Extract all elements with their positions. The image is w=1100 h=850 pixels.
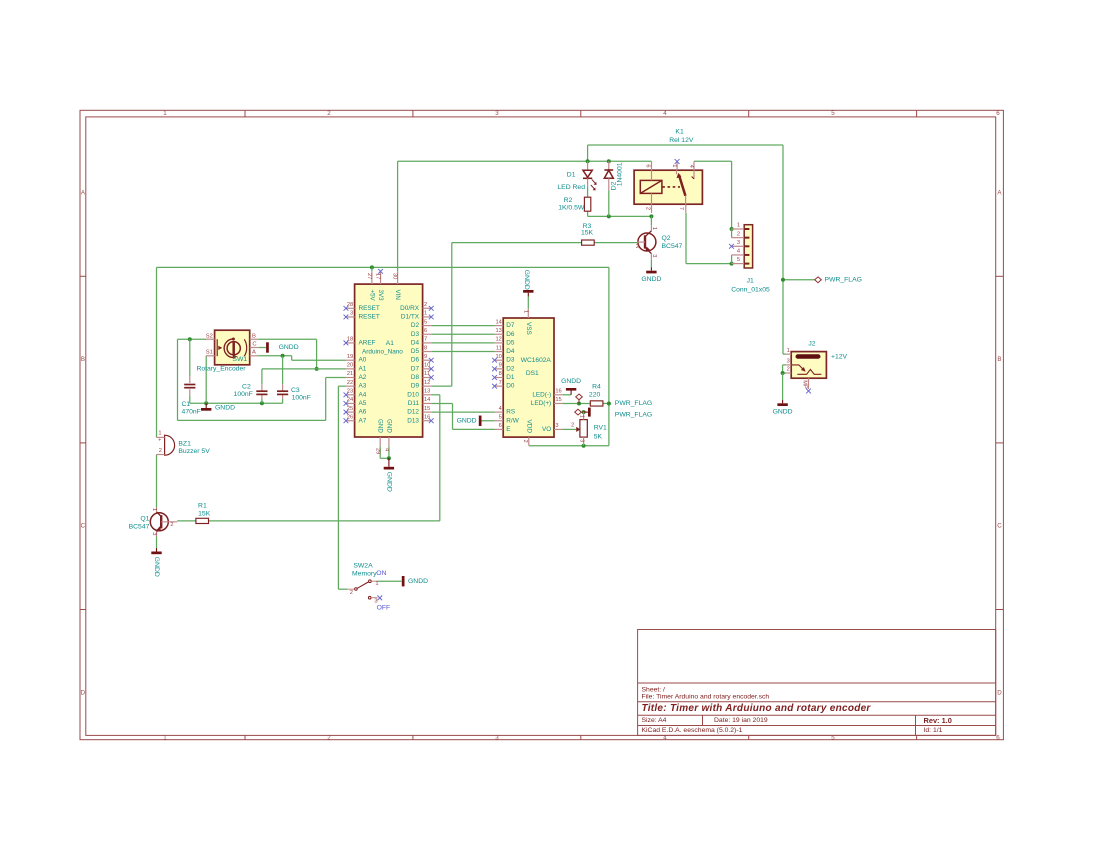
svg-text:RV1: RV1 [594, 425, 607, 432]
pin 16 D13 [407, 414, 433, 424]
connector J1 Conn_01x05 [731, 225, 770, 294]
wire VIN vertical [397, 161, 399, 271]
pin 1 J1 [732, 223, 750, 229]
svg-text:1: 1 [671, 164, 677, 167]
pin 9 D2 [492, 363, 515, 373]
node PWR_FLAG LED junction [577, 401, 581, 405]
svg-text:Buzzer 5V: Buzzer 5V [178, 448, 210, 455]
svg-text:6: 6 [424, 328, 427, 334]
power flag PWR_FLAG right [815, 276, 862, 283]
pin 8 D1 [492, 371, 515, 381]
svg-text:D3: D3 [411, 331, 420, 338]
wire C3 top [282, 356, 284, 391]
svg-text:C3: C3 [291, 387, 300, 394]
svg-text:30: 30 [391, 273, 397, 279]
wire ground rail under caps [190, 402, 283, 404]
svg-text:470nF: 470nF [182, 409, 201, 416]
svg-text:D1: D1 [567, 172, 576, 179]
svg-text:D11: D11 [408, 400, 420, 407]
svg-text:Q1: Q1 [140, 516, 149, 523]
svg-text:D6: D6 [411, 357, 420, 364]
svg-text:D7: D7 [506, 322, 515, 329]
wire +5V to buzzer [156, 267, 158, 437]
svg-text:100nF: 100nF [234, 391, 253, 398]
svg-text:5: 5 [737, 257, 740, 263]
svg-text:6: 6 [996, 734, 1000, 741]
node RV1 bottom junction [582, 444, 586, 448]
svg-text:ON: ON [376, 570, 386, 577]
pin 18 AREF [344, 337, 376, 347]
svg-text:Q2: Q2 [662, 235, 671, 242]
svg-text:GNDD: GNDD [408, 578, 428, 585]
node D1 junction [586, 159, 590, 163]
svg-text:D1: D1 [506, 374, 515, 381]
svg-text:7: 7 [499, 380, 502, 386]
svg-text:VSS: VSS [525, 322, 532, 335]
wire A3 to SW2A [338, 386, 347, 589]
pin 27 +5V [366, 271, 376, 301]
wire C2 bottom stub [261, 395, 263, 404]
svg-text:Date: 19 ian 2019: Date: 19 ian 2019 [714, 717, 768, 724]
svg-text:Id: 1/1: Id: 1/1 [924, 727, 943, 734]
node D2 junction [607, 159, 611, 163]
svg-text:6: 6 [645, 164, 651, 167]
pin 10 D3 [492, 354, 515, 364]
capacitor C1 470nF [181, 385, 200, 416]
svg-text:15K: 15K [198, 511, 211, 518]
svg-text:J1: J1 [747, 278, 754, 285]
pin 23 A4 [344, 389, 367, 399]
svg-text:C: C [997, 523, 1002, 530]
pin 5 J1 [732, 257, 750, 263]
svg-text:3: 3 [495, 110, 499, 117]
svg-text:11: 11 [496, 345, 502, 351]
svg-text:DS1: DS1 [526, 370, 539, 377]
svg-text:D13: D13 [407, 417, 419, 424]
pin 2 relay coil- [645, 204, 652, 213]
svg-text:9: 9 [499, 363, 502, 369]
wire Q2 emitter to ground [650, 260, 652, 267]
pin 19 A0 [346, 354, 367, 364]
wire D11 to E [431, 403, 494, 429]
svg-text:1: 1 [523, 310, 529, 313]
ground GNDD under Q1 [151, 548, 161, 577]
pin 6 relay coil+ [645, 161, 652, 170]
svg-text:1: 1 [651, 227, 657, 230]
wire Arduino ground [380, 446, 389, 458]
svg-text:S1: S1 [206, 350, 213, 356]
pin 5 R/W [495, 414, 520, 424]
capacitor C2 100nF [234, 384, 268, 398]
svg-text:LED(+): LED(+) [531, 400, 551, 407]
wire D12 to RS [431, 411, 494, 413]
svg-text:2: 2 [170, 522, 173, 528]
resistor R3 15K [581, 223, 594, 245]
svg-text:1: 1 [375, 581, 378, 587]
node R4 junction [607, 401, 611, 405]
node ground rail junction [204, 401, 208, 405]
svg-text:A1: A1 [359, 365, 367, 372]
wire C1 bottom [189, 389, 191, 403]
svg-text:2: 2 [327, 110, 331, 117]
ground GNDD under Arduino [384, 458, 394, 492]
svg-text:D9: D9 [411, 383, 420, 390]
svg-text:MP: MP [802, 380, 808, 389]
wire D1 anode riser [587, 145, 589, 161]
svg-text:Rotary_Encoder: Rotary_Encoder [196, 366, 246, 373]
pin 22 A3 [346, 380, 367, 390]
wire S1 to ground rail [205, 356, 207, 404]
wire VSS to ground [527, 297, 529, 309]
wire relay pin 4 to J1 pin 1 [694, 161, 732, 229]
svg-text:100nF: 100nF [292, 395, 311, 402]
pin 3 J2 [786, 359, 791, 365]
svg-text:19: 19 [347, 354, 353, 360]
ground GNDD at SW1 C [267, 342, 298, 352]
wire D3 to LCD D6 [431, 333, 494, 335]
pin 4 GND [383, 419, 392, 451]
svg-text:D5: D5 [411, 348, 420, 355]
svg-text:R4: R4 [592, 383, 601, 390]
pin 6 D3 [411, 328, 431, 338]
svg-text:B: B [252, 333, 256, 339]
pin 15 D12 [407, 406, 431, 416]
svg-text:J2: J2 [808, 341, 815, 348]
svg-text:17: 17 [374, 273, 380, 279]
svg-text:LED(-): LED(-) [532, 391, 551, 398]
svg-text:D6: D6 [506, 331, 515, 338]
svg-text:VIN: VIN [394, 290, 401, 300]
wire +12V down to J2 [783, 145, 786, 354]
svg-text:GND: GND [377, 419, 384, 433]
wire J2 to ground [782, 373, 784, 400]
pin 4 RS [495, 406, 516, 416]
svg-text:5K: 5K [594, 434, 603, 441]
svg-text:+12V: +12V [831, 354, 848, 361]
wire D2 to LCD D7 [431, 325, 494, 327]
svg-text:D12: D12 [407, 409, 419, 416]
pin 4 relay NO [688, 161, 694, 170]
ic A1 Arduino_Nano body [355, 284, 423, 437]
node D2 bottom junction [607, 214, 611, 218]
pin 13 D10 [407, 389, 431, 399]
resistor R1 15K [196, 502, 211, 523]
pin 7 D4 [411, 337, 431, 347]
transistor Q2 BC547 [636, 225, 683, 259]
wire C2 top [261, 369, 263, 391]
pin 12 D9 [411, 380, 431, 390]
svg-text:Size: A4: Size: A4 [642, 717, 667, 724]
svg-text:3: 3 [374, 598, 377, 604]
svg-text:15: 15 [555, 397, 561, 403]
svg-text:13: 13 [424, 389, 430, 395]
pin B SW1 [250, 333, 259, 339]
wire +5V rail [157, 266, 609, 268]
potentiometer RV1 5K [562, 412, 607, 446]
pin 16 LED(-) [532, 389, 562, 399]
svg-text:1: 1 [424, 311, 427, 317]
svg-text:R2: R2 [564, 197, 573, 204]
svg-text:D5: D5 [506, 339, 515, 346]
svg-text:4: 4 [383, 448, 389, 451]
capacitor C3 100nF [277, 387, 311, 401]
relay K1 body [634, 129, 702, 205]
svg-text:SW1: SW1 [232, 356, 247, 363]
svg-text:C2: C2 [242, 384, 251, 391]
ground GNDD at SW2A [403, 576, 428, 586]
wire R1 to Q1 base [177, 520, 196, 522]
pin 10 D7 [411, 363, 434, 373]
svg-text:2: 2 [645, 207, 651, 210]
node +5V junction at pin 27 [370, 265, 374, 269]
svg-text:2: 2 [636, 244, 639, 250]
svg-text:A5: A5 [359, 400, 367, 407]
svg-text:5: 5 [499, 414, 502, 420]
svg-text:20: 20 [347, 363, 353, 369]
svg-text:3: 3 [737, 240, 740, 246]
svg-text:Memory: Memory [352, 570, 377, 577]
svg-text:1: 1 [787, 348, 790, 354]
pin S1 SW1 [206, 350, 215, 356]
svg-text:C: C [252, 342, 256, 348]
node J1 pin 1 junction [730, 227, 734, 231]
svg-text:D8: D8 [411, 374, 420, 381]
svg-text:A: A [252, 350, 256, 356]
svg-text:3V3: 3V3 [377, 290, 384, 302]
svg-text:220: 220 [589, 391, 601, 398]
svg-text:Rel 12V: Rel 12V [669, 137, 694, 144]
svg-text:GNDD: GNDD [523, 270, 530, 290]
svg-text:B: B [997, 356, 1001, 363]
pin 3 VO [542, 423, 562, 433]
wire J2 pins 2-3 tie [783, 365, 787, 373]
pin 7 D0 [492, 380, 515, 390]
svg-text:LED Red: LED Red [557, 184, 585, 191]
svg-text:File: Timer Arduino and rotary: File: Timer Arduino and rotary encoder.s… [642, 694, 770, 701]
wire C3 bottom stub [282, 395, 284, 404]
svg-text:A1: A1 [386, 340, 394, 347]
pin 5 D2 [411, 319, 431, 329]
svg-text:C1: C1 [181, 401, 190, 408]
svg-text:VO: VO [542, 426, 551, 433]
ground GNDD under Q2 [641, 267, 661, 283]
svg-text:22: 22 [347, 380, 353, 386]
node J2 junction [781, 371, 785, 375]
connector J2 barrel jack +12V [791, 341, 847, 379]
pin 28 RESET [344, 302, 380, 312]
wire R3 to Q2 base [594, 242, 637, 244]
svg-text:2: 2 [737, 231, 740, 237]
pin 9 D6 [411, 354, 434, 364]
wire J1 pin 1 to pin 2 [731, 229, 733, 238]
pin 26 A7 [344, 414, 367, 424]
pin 6 E [495, 423, 511, 433]
svg-text:+5V: +5V [368, 290, 375, 302]
svg-text:D0/RX: D0/RX [400, 305, 420, 312]
power flag PWR_FLAG at RV1 [575, 409, 652, 418]
wire D9 to R3 [431, 243, 581, 387]
ground GNDD at R/W [457, 416, 481, 426]
pin 2 J2 [786, 367, 791, 373]
pin 3 RESET [344, 311, 380, 321]
svg-text:1: 1 [158, 431, 161, 437]
svg-text:4: 4 [499, 406, 502, 412]
ground at RV1 top [584, 408, 590, 417]
pin 12 D5 [495, 337, 515, 347]
power flag PWR_FLAG at LED+ [576, 394, 652, 407]
pin 30 VIN [391, 271, 401, 300]
wire S2 to A2 loop [178, 339, 346, 420]
svg-text:R/W: R/W [506, 417, 519, 424]
wire relay pin 7 to J1 pin 5 [686, 213, 732, 264]
svg-text:12: 12 [424, 380, 430, 386]
pin 2 J1 [732, 231, 750, 237]
wire D10 to R1 [209, 395, 440, 521]
svg-text:7: 7 [678, 207, 684, 210]
wire +12V top rail [588, 144, 783, 146]
svg-text:7: 7 [424, 337, 427, 343]
svg-text:GNDD: GNDD [773, 409, 793, 416]
svg-text:D: D [81, 689, 86, 696]
pin 2 VDD [522, 420, 532, 446]
wire J1 pin 5 to pin 4 [731, 255, 733, 264]
svg-text:SW2A: SW2A [353, 563, 373, 570]
wire pin 27 riser [371, 267, 373, 271]
svg-text:AREF: AREF [359, 339, 376, 346]
node J1 pin 5 junction [730, 262, 734, 266]
svg-text:D2: D2 [506, 365, 515, 372]
wire to PWR_FLAG [783, 279, 815, 281]
node PWR_FLAG junction [781, 278, 785, 282]
wire D5 to LCD D4 [431, 351, 494, 353]
svg-text:3: 3 [651, 254, 657, 257]
svg-text:B: B [81, 356, 85, 363]
svg-text:GNDD: GNDD [457, 417, 477, 424]
svg-text:GNDD: GNDD [641, 276, 661, 283]
svg-text:1: 1 [163, 734, 167, 741]
svg-text:21: 21 [347, 371, 353, 377]
svg-text:8: 8 [424, 345, 427, 351]
svg-text:1N4001: 1N4001 [617, 162, 624, 186]
switch SW2A Memory [347, 563, 390, 612]
svg-text:6: 6 [996, 110, 1000, 117]
svg-text:C: C [81, 523, 86, 530]
pin 11 D8 [411, 371, 434, 381]
svg-text:D10: D10 [407, 391, 419, 398]
wire R4 to +5V [603, 402, 609, 404]
wire A to A0 [258, 356, 346, 360]
ground GNDD under cap rail [201, 403, 235, 411]
pin 11 D4 [495, 345, 515, 355]
svg-text:PWR_FLAG: PWR_FLAG [615, 400, 652, 407]
svg-text:BC547: BC547 [662, 243, 683, 250]
pin 13 D6 [495, 328, 515, 338]
svg-text:GND: GND [385, 419, 392, 433]
svg-text:Arduino_Nano: Arduino_Nano [362, 349, 403, 356]
pin 1 relay common [671, 159, 679, 170]
svg-text:GNDD: GNDD [386, 472, 393, 492]
svg-text:12: 12 [495, 337, 501, 343]
resistor R2 1K/0.5W [558, 197, 591, 212]
svg-text:Rev: 1.0: Rev: 1.0 [924, 716, 952, 725]
pin 3 J1 [729, 240, 749, 249]
svg-text:Conn_01x05: Conn_01x05 [731, 287, 770, 294]
wire LED+ to R4 [562, 402, 590, 404]
title block [638, 630, 996, 736]
ground GNDD under J2 [773, 400, 793, 416]
svg-text:A6: A6 [359, 409, 367, 416]
pin 15 LED(+) [531, 397, 563, 407]
wire coil bottom rail [588, 211, 652, 216]
svg-text:A3: A3 [359, 383, 367, 390]
svg-text:+: + [158, 437, 161, 443]
svg-text:16: 16 [555, 389, 561, 395]
diode D1 LED Red [557, 161, 596, 197]
svg-text:2: 2 [350, 590, 353, 596]
node Arduino ground junction [387, 456, 391, 460]
node coil/collector junction [649, 214, 653, 218]
svg-text:D3: D3 [506, 357, 515, 364]
wire LED- to ground [562, 394, 571, 396]
svg-text:6: 6 [499, 423, 502, 429]
wire D4 to LCD D5 [431, 342, 494, 344]
svg-text:BZ1: BZ1 [178, 440, 191, 447]
wire A1 row [262, 368, 346, 370]
pin 24 A5 [344, 397, 367, 407]
svg-text:1: 1 [578, 415, 584, 418]
svg-text:29: 29 [375, 448, 381, 454]
svg-text:K1: K1 [675, 129, 684, 136]
pin 1 VSS [523, 309, 532, 335]
wire VDD rail [529, 445, 609, 447]
wire C to ground [258, 347, 266, 349]
svg-text:2: 2 [787, 367, 790, 373]
pin 25 A6 [344, 406, 367, 416]
svg-text:5: 5 [831, 110, 835, 117]
rotary encoder SW1 body [196, 330, 249, 373]
pin 21 A2 [346, 371, 367, 381]
wire Q1 emitter to ground [156, 537, 158, 549]
svg-text:1: 1 [737, 223, 740, 229]
pin 14 D7 [495, 319, 515, 329]
svg-text:2: 2 [571, 422, 574, 428]
svg-text:A2: A2 [359, 374, 367, 381]
svg-text:1K/0.5W: 1K/0.5W [558, 205, 585, 212]
svg-text:WC1602A: WC1602A [521, 357, 552, 364]
pin 14 D11 [408, 397, 432, 407]
svg-text:2: 2 [327, 734, 331, 741]
svg-text:2: 2 [522, 440, 528, 443]
svg-text:RESET: RESET [359, 305, 380, 312]
node C1 junction [188, 337, 192, 341]
svg-text:D: D [997, 689, 1002, 696]
diode D2 1N4001 [604, 161, 623, 216]
svg-text:1: 1 [151, 508, 157, 511]
wire SW2A to ground [378, 580, 402, 582]
pin 29 GND [375, 419, 384, 454]
svg-text:15K: 15K [581, 230, 594, 237]
svg-text:14: 14 [424, 397, 430, 403]
svg-text:VDD: VDD [525, 420, 532, 434]
svg-text:GNDD: GNDD [215, 405, 235, 412]
svg-text:13: 13 [495, 328, 501, 334]
ic DS1 WC1602A body [503, 318, 554, 437]
wire R/W to ground [482, 420, 495, 422]
resistor R4 220 [589, 383, 603, 406]
wire collector riser [650, 216, 652, 225]
svg-text:2: 2 [159, 448, 162, 454]
node A1 row junction [315, 367, 319, 371]
